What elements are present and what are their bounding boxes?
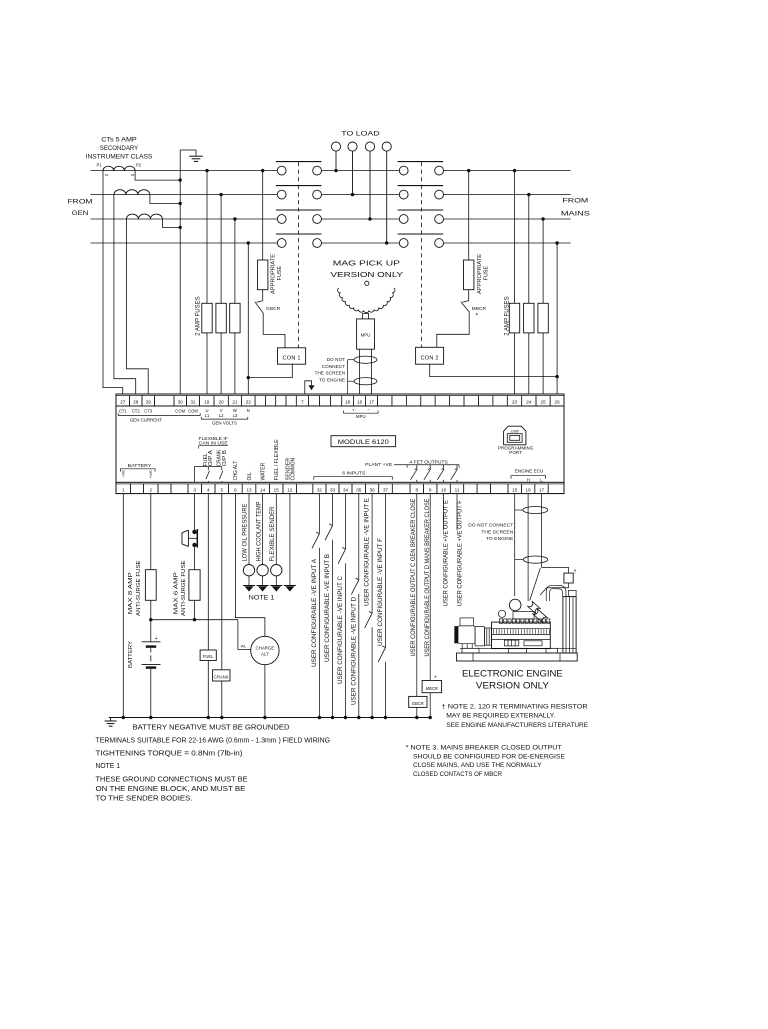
module name box MODULE 6120 (331, 436, 396, 447)
svg-text:FUEL: FUEL (203, 654, 214, 659)
junction gen neutral / CON1 return (247, 376, 250, 379)
svg-text:16: 16 (526, 487, 532, 492)
wire gen volts to terminal 20 (219, 193, 222, 196)
svg-text:6: 6 (234, 487, 237, 492)
svg-text:LOW OIL PRESSURE: LOW OIL PRESSURE (242, 504, 249, 562)
svg-text:15: 15 (274, 487, 280, 492)
wire emergency stop to fuse (194, 547, 196, 569)
svg-text:25: 25 (541, 400, 547, 405)
bus L2 from gen (90, 194, 277, 196)
battery B1 (142, 641, 161, 643)
module outline right edge (563, 406, 565, 482)
current transformer CT2 primary coil (114, 190, 150, 195)
switch crank output contact (221, 467, 223, 471)
svg-text:24: 24 (526, 400, 532, 405)
battery negative rail (109, 717, 431, 719)
wire battery to rail (150, 669, 152, 718)
wire output E (443, 494, 445, 531)
svg-text:DO NOT: DO NOT (327, 357, 346, 362)
svg-text:32: 32 (317, 487, 323, 492)
bus L1 to mains (444, 170, 571, 172)
svg-text:36: 36 (370, 487, 376, 492)
svg-text:2 AMP FUSES: 2 AMP FUSES (504, 296, 511, 336)
fuse F-gen APPROPRIATE FUSE (258, 260, 268, 290)
svg-text:MAG PICK UP: MAG PICK UP (333, 258, 400, 267)
generator CHARGE ALT (251, 636, 279, 664)
svg-text:TO ENGINE: TO ENGINE (486, 536, 513, 542)
svg-text:FUSE: FUSE (277, 265, 283, 280)
emergency stop pushbutton (192, 530, 196, 534)
svg-text:34: 34 (343, 487, 349, 492)
wire input F lower to rail (385, 662, 387, 718)
ECU cable screen ellipse lower (523, 556, 547, 563)
sender high coolant temp (257, 565, 268, 576)
wire plant supply horizontal (151, 619, 238, 621)
wire mains phase to terminal 25 (541, 217, 544, 220)
fuse F-mains APPROPRIATE FUSE (464, 260, 474, 290)
bus L2 to mains (444, 194, 571, 196)
svg-text:17: 17 (369, 400, 375, 405)
bus L1 from gen (90, 170, 277, 172)
wire resistor return (540, 583, 568, 595)
cable screen ellipse upper (354, 356, 377, 363)
relay coil CRANK (213, 670, 230, 681)
wire CT3 S2 lead to common (162, 219, 180, 227)
wire input B lower to rail (332, 540, 334, 718)
svg-text:CLOSE MAINS, AND USE THE NORMA: CLOSE MAINS, AND USE THE NORMALLY (413, 762, 542, 769)
svg-text:U: U (205, 408, 208, 413)
svg-text:9: 9 (429, 487, 432, 492)
svg-text:TERMINALS SUITABLE FOR 22-16 A: TERMINALS SUITABLE FOR 22-16 AWG (0.6mm … (96, 738, 331, 745)
wire GBCR contact to CON 1 (263, 313, 285, 347)
wire load phase 3 (369, 151, 371, 219)
switch input B (329, 524, 332, 526)
svg-text:7: 7 (301, 400, 304, 405)
svg-text:FROM: FROM (562, 198, 588, 205)
wire ECU screen drain (514, 494, 516, 596)
svg-text:MODULE 6120: MODULE 6120 (338, 439, 389, 446)
svg-text:ANTI-SURGE FUSE: ANTI-SURGE FUSE (181, 560, 187, 616)
svg-text:CHARGE: CHARGE (256, 645, 275, 650)
fuse MAX 6 AMP ANTI-SURGE (189, 570, 200, 601)
engine generator set illustration (455, 590, 578, 661)
svg-text:FLEXIBLE SENDER: FLEXIBLE SENDER (269, 506, 276, 562)
wire mains phase to terminal 23 (513, 169, 516, 172)
svg-text:FUSE: FUSE (484, 265, 490, 280)
bus L2 between breakers (322, 194, 400, 196)
svg-text:APPROPRIATE: APPROPRIATE (477, 253, 483, 294)
wire CAN L into engine (530, 568, 541, 600)
bus L3 from gen (90, 218, 277, 220)
wire CT3 S1 lead to terminal 29 (126, 219, 148, 394)
wire input E lower to rail (371, 627, 373, 717)
wire terminal 3 common feed (195, 467, 222, 483)
wire CON 2 return to mains neutral (430, 364, 557, 376)
switch input F (382, 646, 385, 648)
svg-text:PLANT +VE: PLANT +VE (365, 462, 392, 468)
svg-text:2 AMP FUSES: 2 AMP FUSES (195, 296, 202, 336)
module outline left edge (115, 406, 117, 482)
svg-text:MBCR: MBCR (472, 306, 487, 312)
relay coil MBCR (422, 681, 442, 693)
svg-text:GBCR: GBCR (266, 306, 281, 312)
wire input A lower to rail (318, 548, 320, 718)
svg-text:TO THE SENDER BODIES.: TO THE SENDER BODIES. (96, 795, 193, 802)
svg-text:S1: S1 (105, 173, 109, 177)
switch input C (342, 547, 345, 549)
svg-text:CON 1: CON 1 (283, 355, 301, 361)
svg-text:+: + (352, 407, 355, 412)
svg-text:L1: L1 (205, 413, 210, 418)
wire ECU CAN H (527, 494, 529, 601)
wire CAN L to terminating resistor (542, 567, 569, 573)
current transformer CT1 primary coil (103, 166, 135, 170)
svg-text:USER CONFIGURABLE OUTPUT D MAN: USER CONFIGURABLE OUTPUT D MANS BREAKER … (424, 498, 431, 657)
svg-text:8: 8 (416, 487, 419, 492)
icon USB programming port (504, 426, 526, 445)
svg-text:USER CONFIGURABLE +VE OUTPUT F: USER CONFIGURABLE +VE OUTPUT F (456, 500, 463, 606)
svg-text:DO NOT CONNECT: DO NOT CONNECT (468, 522, 513, 528)
bus N between breakers (322, 242, 400, 244)
wire plant +ve feed to FET outputs (394, 464, 459, 466)
wire bus L1 to mains aux fuse (467, 169, 470, 172)
relay coil GBCR (409, 696, 427, 707)
svg-text:ALT: ALT (261, 651, 269, 656)
wire charge alt to rail (264, 665, 266, 718)
svg-text:W: W (233, 408, 237, 413)
svg-text:−: − (367, 407, 370, 412)
svg-text:22: 22 (246, 400, 252, 405)
wire terminal 4 to fuel relay (207, 494, 209, 650)
svg-text:USER CONFIGURABLE -VE INPUT D: USER CONFIGURABLE -VE INPUT D (350, 597, 357, 705)
svg-text:USER CONFIGURABLE OUTPUT C GEN: USER CONFIGURABLE OUTPUT C GEN BREAKER C… (410, 498, 417, 657)
svg-text:35: 35 (356, 487, 362, 492)
breaker MAINS linkage dashed (421, 162, 423, 347)
wire screen drain to terminal 18 (348, 359, 355, 361)
wire CT2 S2 lead to common (150, 195, 180, 204)
svg-text:MAY BE REQUIRED EXTERNALLY.: MAY BE REQUIRED EXTERNALLY. (446, 712, 555, 719)
circuit breaker MAINS 4-pole (398, 162, 444, 248)
svg-text:CAN IN USE: CAN IN USE (199, 441, 228, 446)
wire fuse to GBCR contact (262, 290, 264, 301)
svg-text:ON THE ENGINE BLOCK, AND MUST: ON THE ENGINE BLOCK, AND MUST BE (96, 786, 246, 793)
svg-text:TO ENGINE: TO ENGINE (319, 377, 345, 382)
svg-text:13: 13 (246, 487, 252, 492)
wire output F (456, 494, 458, 531)
wire terminal 2 to fuse (150, 494, 152, 570)
load connection circle 3 (365, 142, 374, 151)
wire gen volts to terminal 19 (205, 169, 208, 172)
connector CON 1 box (278, 348, 306, 364)
breaker GEN linkage dashed (297, 162, 299, 348)
wire input E upper (371, 494, 373, 614)
fuse bank 2 AMP FUSES (mains) (509, 303, 519, 333)
svg-text:S2: S2 (131, 173, 135, 177)
svg-text:20: 20 (219, 400, 225, 405)
svg-text:H: H (527, 478, 530, 483)
svg-text:MAX 6 AMP: MAX 6 AMP (173, 571, 179, 614)
switch input D (356, 578, 359, 580)
wire CT2 S1 lead to terminal 28 (114, 195, 136, 394)
switch input E (369, 612, 372, 614)
svg-text:27: 27 (120, 400, 126, 405)
svg-text:THESE GROUND CONNECTIONS MUST: THESE GROUND CONNECTIONS MUST BE (96, 776, 248, 783)
svg-text:26: 26 (555, 400, 561, 405)
wire ECU CAN L (541, 494, 543, 568)
wire input C lower to rail (345, 563, 347, 717)
svg-text:PORT: PORT (509, 450, 522, 455)
svg-text:+: + (155, 636, 158, 642)
svg-text:N: N (247, 408, 250, 413)
current transformer CT3 primary coil (126, 214, 162, 219)
svg-text:P2: P2 (136, 163, 142, 168)
svg-text:TO LOAD: TO LOAD (341, 131, 380, 138)
bracket GEN VOLTS (201, 417, 248, 419)
wire CT common vertical to terminal 30 (179, 150, 181, 394)
svg-text:31: 31 (190, 400, 196, 405)
wire terminal 15 to flexible sender (275, 494, 277, 565)
wire fuse to battery (150, 600, 152, 642)
bus N from gen (90, 242, 277, 244)
wire crank relay to rail (221, 681, 223, 718)
wire terminal 5 to crank relay (221, 494, 223, 670)
svg-text:THE SCREEN: THE SCREEN (481, 530, 513, 536)
svg-text:ENGINE ECU: ENGINE ECU (515, 468, 544, 474)
wire input A upper (318, 494, 320, 534)
svg-text:USER CONFIGURABLE -VE INPUT A: USER CONFIGURABLE -VE INPUT A (311, 559, 318, 667)
svg-text:16: 16 (357, 400, 363, 405)
svg-text:USER CONFIGURABLE -VE INPUT E: USER CONFIGURABLE -VE INPUT E (364, 498, 371, 606)
resistor 120R terminating (564, 573, 573, 583)
svg-text:FUEL / FLEXIBLE: FUEL / FLEXIBLE (274, 439, 280, 481)
relay coil FUEL (200, 650, 216, 661)
svg-text:GEN: GEN (72, 210, 89, 217)
wire terminal 13 to oil sensor (248, 494, 250, 565)
svg-text:33: 33 (330, 487, 336, 492)
svg-text:11: 11 (455, 487, 460, 492)
terminal strip top row (116, 394, 564, 406)
svg-text:BATTERY: BATTERY (128, 640, 134, 668)
wire fuse to plant supply (194, 600, 196, 619)
svg-text:29: 29 (146, 400, 152, 405)
ground symbol top (189, 155, 203, 157)
svg-text:O/P B: O/P B (222, 449, 228, 466)
wire input C upper (345, 494, 347, 550)
gear toothed wheel (338, 288, 395, 313)
svg-text:MAINS: MAINS (561, 211, 591, 218)
load connection circle 2 (348, 142, 357, 151)
sender low oil pressure (243, 565, 254, 576)
svg-text:SECONDARY: SECONDARY (100, 145, 139, 152)
svg-text:CONNECT: CONNECT (322, 364, 346, 369)
svg-text:MAX 8 AMP: MAX 8 AMP (128, 571, 134, 614)
switch input A (316, 532, 319, 534)
svg-text:P1: P1 (96, 163, 102, 168)
svg-text:NOTE 1: NOTE 1 (249, 595, 275, 602)
bus L3 between breakers (322, 218, 400, 220)
svg-text:GBCR: GBCR (412, 701, 424, 706)
circuit breaker GEN 4-pole (276, 162, 322, 248)
wire terminal 14 to coolant sensor (262, 494, 264, 565)
svg-text:GEN VOLTS: GEN VOLTS (212, 420, 237, 425)
wire fuel relay to rail (207, 661, 209, 718)
wire GBCR to rail (416, 707, 418, 717)
svg-text:37: 37 (383, 487, 389, 492)
svg-text:MPU: MPU (361, 333, 371, 338)
wire warning lamp feed (238, 620, 251, 650)
bus L1 between breakers (322, 170, 400, 172)
svg-text:MBCR: MBCR (426, 686, 438, 691)
svg-text:6 INPUTS: 6 INPUTS (342, 471, 365, 477)
wire output D to MBCR relay (429, 494, 431, 681)
wire terminal 6 to charge alternator (235, 494, 265, 637)
svg-text:USER CONFIGURABLE +VE OUTPUT E: USER CONFIGURABLE +VE OUTPUT E (442, 500, 449, 606)
svg-text:3: 3 (193, 487, 196, 492)
svg-text:USER CONFIGURABLE -VE INPUT F: USER CONFIGURABLE -VE INPUT F (377, 538, 384, 646)
wire to earth symbol (180, 149, 196, 151)
svg-text:BATTERY: BATTERY (128, 463, 152, 468)
wire bus L1 to gen aux fuse (261, 169, 264, 172)
wire gen volts to terminal 21 (233, 217, 236, 220)
bus N to mains (444, 242, 571, 244)
svg-text:SEE ENGINE MANUFACTURERS LITER: SEE ENGINE MANUFACTURERS LITERATURE (446, 722, 588, 729)
wire mains phase to terminal 24 (527, 193, 530, 196)
svg-text:COM: COM (188, 408, 198, 413)
svg-text:GEN CURRENT: GEN CURRENT (130, 417, 163, 422)
svg-text:23: 23 (512, 400, 518, 405)
wire terminal 3 to emergency stop (194, 494, 196, 532)
svg-text:NOTE 1: NOTE 1 (96, 763, 121, 770)
svg-text:CRANK: CRANK (214, 675, 229, 680)
svg-text:THE SCREEN: THE SCREEN (315, 371, 346, 376)
svg-text:† NOTE 2. 120 R TERMINATING RE: † NOTE 2. 120 R TERMINATING RESISTOR (442, 703, 588, 710)
wire input F upper (385, 494, 387, 648)
svg-text:15: 15 (512, 487, 518, 492)
svg-text:OIL.: OIL. (247, 471, 253, 480)
svg-text:COM: COM (175, 408, 185, 413)
wire terminal 1 to battery negative rail (122, 494, 124, 718)
svg-text:L3: L3 (233, 413, 238, 418)
switch fuel output contact (207, 467, 209, 471)
connector CON 2 box (416, 347, 444, 364)
wire load phase 4 (386, 151, 388, 243)
svg-text:USB: USB (511, 428, 520, 433)
svg-text:4 FET OUTPUTS: 4 FET OUTPUTS (410, 459, 448, 465)
svg-text:−VE: −VE (122, 469, 126, 478)
fuse bank 2 AMP FUSES (gen) (202, 303, 212, 333)
svg-text:5: 5 (221, 487, 224, 492)
svg-text:CT1: CT1 (119, 408, 128, 413)
wire input D upper (358, 494, 360, 580)
wire output C to GBCR relay (416, 494, 418, 697)
svg-text:ELECTRONIC ENGINE: ELECTRONIC ENGINE (462, 668, 563, 678)
load connection circle 4 (382, 142, 391, 151)
svg-text:21: 21 (232, 400, 238, 405)
svg-text:V: V (220, 408, 223, 413)
wire CT1 S1 lead to terminal 27 (103, 171, 123, 394)
svg-text:CON 2: CON 2 (421, 355, 439, 361)
wire MBCR contact to CON 2 (437, 312, 469, 347)
switch MBCR auxiliary contact (463, 301, 469, 303)
svg-text:28: 28 (133, 400, 139, 405)
svg-text:17: 17 (539, 487, 545, 492)
svg-text:CLOSED CONTACTS OF MBCR: CLOSED CONTACTS OF MBCR (413, 771, 502, 778)
svg-text:SHOULD BE CONFIGURED FOR DE-EN: SHOULD BE CONFIGURED FOR DE-ENERGISE (413, 753, 565, 760)
wire mains phase to terminal 26 (555, 241, 558, 244)
transducer MPU body (363, 314, 369, 319)
svg-text:APPROPRIATE: APPROPRIATE (270, 253, 276, 294)
svg-text:L: L (540, 478, 543, 483)
svg-text:WL: WL (241, 645, 247, 649)
wire MPU + to terminal 16 (359, 349, 361, 394)
svg-text:FROM: FROM (68, 199, 93, 206)
load connection circle 1 (331, 142, 340, 151)
fuse MAX 8 AMP ANTI-SURGE (145, 570, 156, 601)
sender flexible (271, 565, 282, 576)
wire terminal 12 sender common to ground (289, 494, 291, 586)
ECU cable screen ellipse upper (523, 507, 548, 514)
wire input D lower to rail (358, 594, 360, 718)
svg-text:12: 12 (287, 487, 293, 492)
wire load phase 1 (335, 151, 337, 170)
svg-text:VERSION ONLY: VERSION ONLY (476, 681, 549, 691)
svg-text:†: † (574, 569, 577, 575)
svg-text:* NOTE 3. MAINS BREAKER CLOSED: * NOTE 3. MAINS BREAKER CLOSED OUTPUT (406, 745, 562, 752)
svg-text:ANTI-SURGE FUSE: ANTI-SURGE FUSE (136, 560, 142, 616)
svg-text:HIGH COOLANT TEMP: HIGH COOLANT TEMP (255, 502, 262, 562)
cable screen ellipse lower (354, 378, 377, 385)
svg-text:MPU: MPU (356, 414, 366, 419)
wire gen volts to terminal 22 (247, 241, 250, 244)
svg-text:O/P A: O/P A (208, 449, 214, 466)
svg-text:VERSION ONLY: VERSION ONLY (331, 270, 404, 279)
svg-text:COMMON: COMMON (290, 458, 296, 481)
switch GBCR auxiliary contact (257, 301, 263, 303)
bracket GEN CURRENT (118, 413, 200, 415)
svg-text:USER CONFIGURABLE -VE INPUT C: USER CONFIGURABLE -VE INPUT C (337, 576, 344, 684)
wire load phase 2 (352, 151, 354, 194)
svg-text:TIGHTENING TORQUE = 0.8Nm (7lb: TIGHTENING TORQUE = 0.8Nm (7lb-in) (96, 750, 243, 757)
svg-text:19: 19 (204, 400, 210, 405)
svg-text:+VE: +VE (149, 469, 153, 478)
timing mark circle (365, 281, 369, 285)
svg-text:CT3: CT3 (144, 408, 153, 413)
wire MPU - to terminal 17 (371, 349, 373, 394)
wire CON 1 return to neutral (248, 364, 292, 377)
junction mains neutral / CON2 return (555, 375, 558, 378)
wire input B upper (332, 494, 334, 526)
svg-text:CTs 5 AMP: CTs 5 AMP (101, 137, 136, 144)
svg-text:L2: L2 (219, 413, 224, 418)
bus L3 to mains (444, 218, 571, 220)
svg-text:USER CONFIGURABLE -VE INPUT B: USER CONFIGURABLE -VE INPUT B (324, 554, 331, 662)
wire terminal 7 earth (305, 381, 312, 394)
svg-text:2: 2 (149, 487, 152, 492)
svg-text:WATER: WATER (260, 462, 266, 480)
svg-text:CT2: CT2 (132, 408, 141, 413)
svg-text:10: 10 (441, 487, 447, 492)
svg-text:14: 14 (260, 487, 266, 492)
svg-text:4: 4 (207, 487, 210, 492)
svg-text:30: 30 (178, 400, 184, 405)
svg-text:18: 18 (345, 400, 351, 405)
wire CT1 S2 lead to common (135, 171, 180, 181)
ground symbol battery negative (110, 718, 112, 721)
switch FET output 8 (416, 465, 418, 469)
terminal strip bottom row (116, 482, 564, 493)
svg-text:1: 1 (122, 487, 125, 492)
wire fuse to MBCR contact (468, 290, 470, 301)
